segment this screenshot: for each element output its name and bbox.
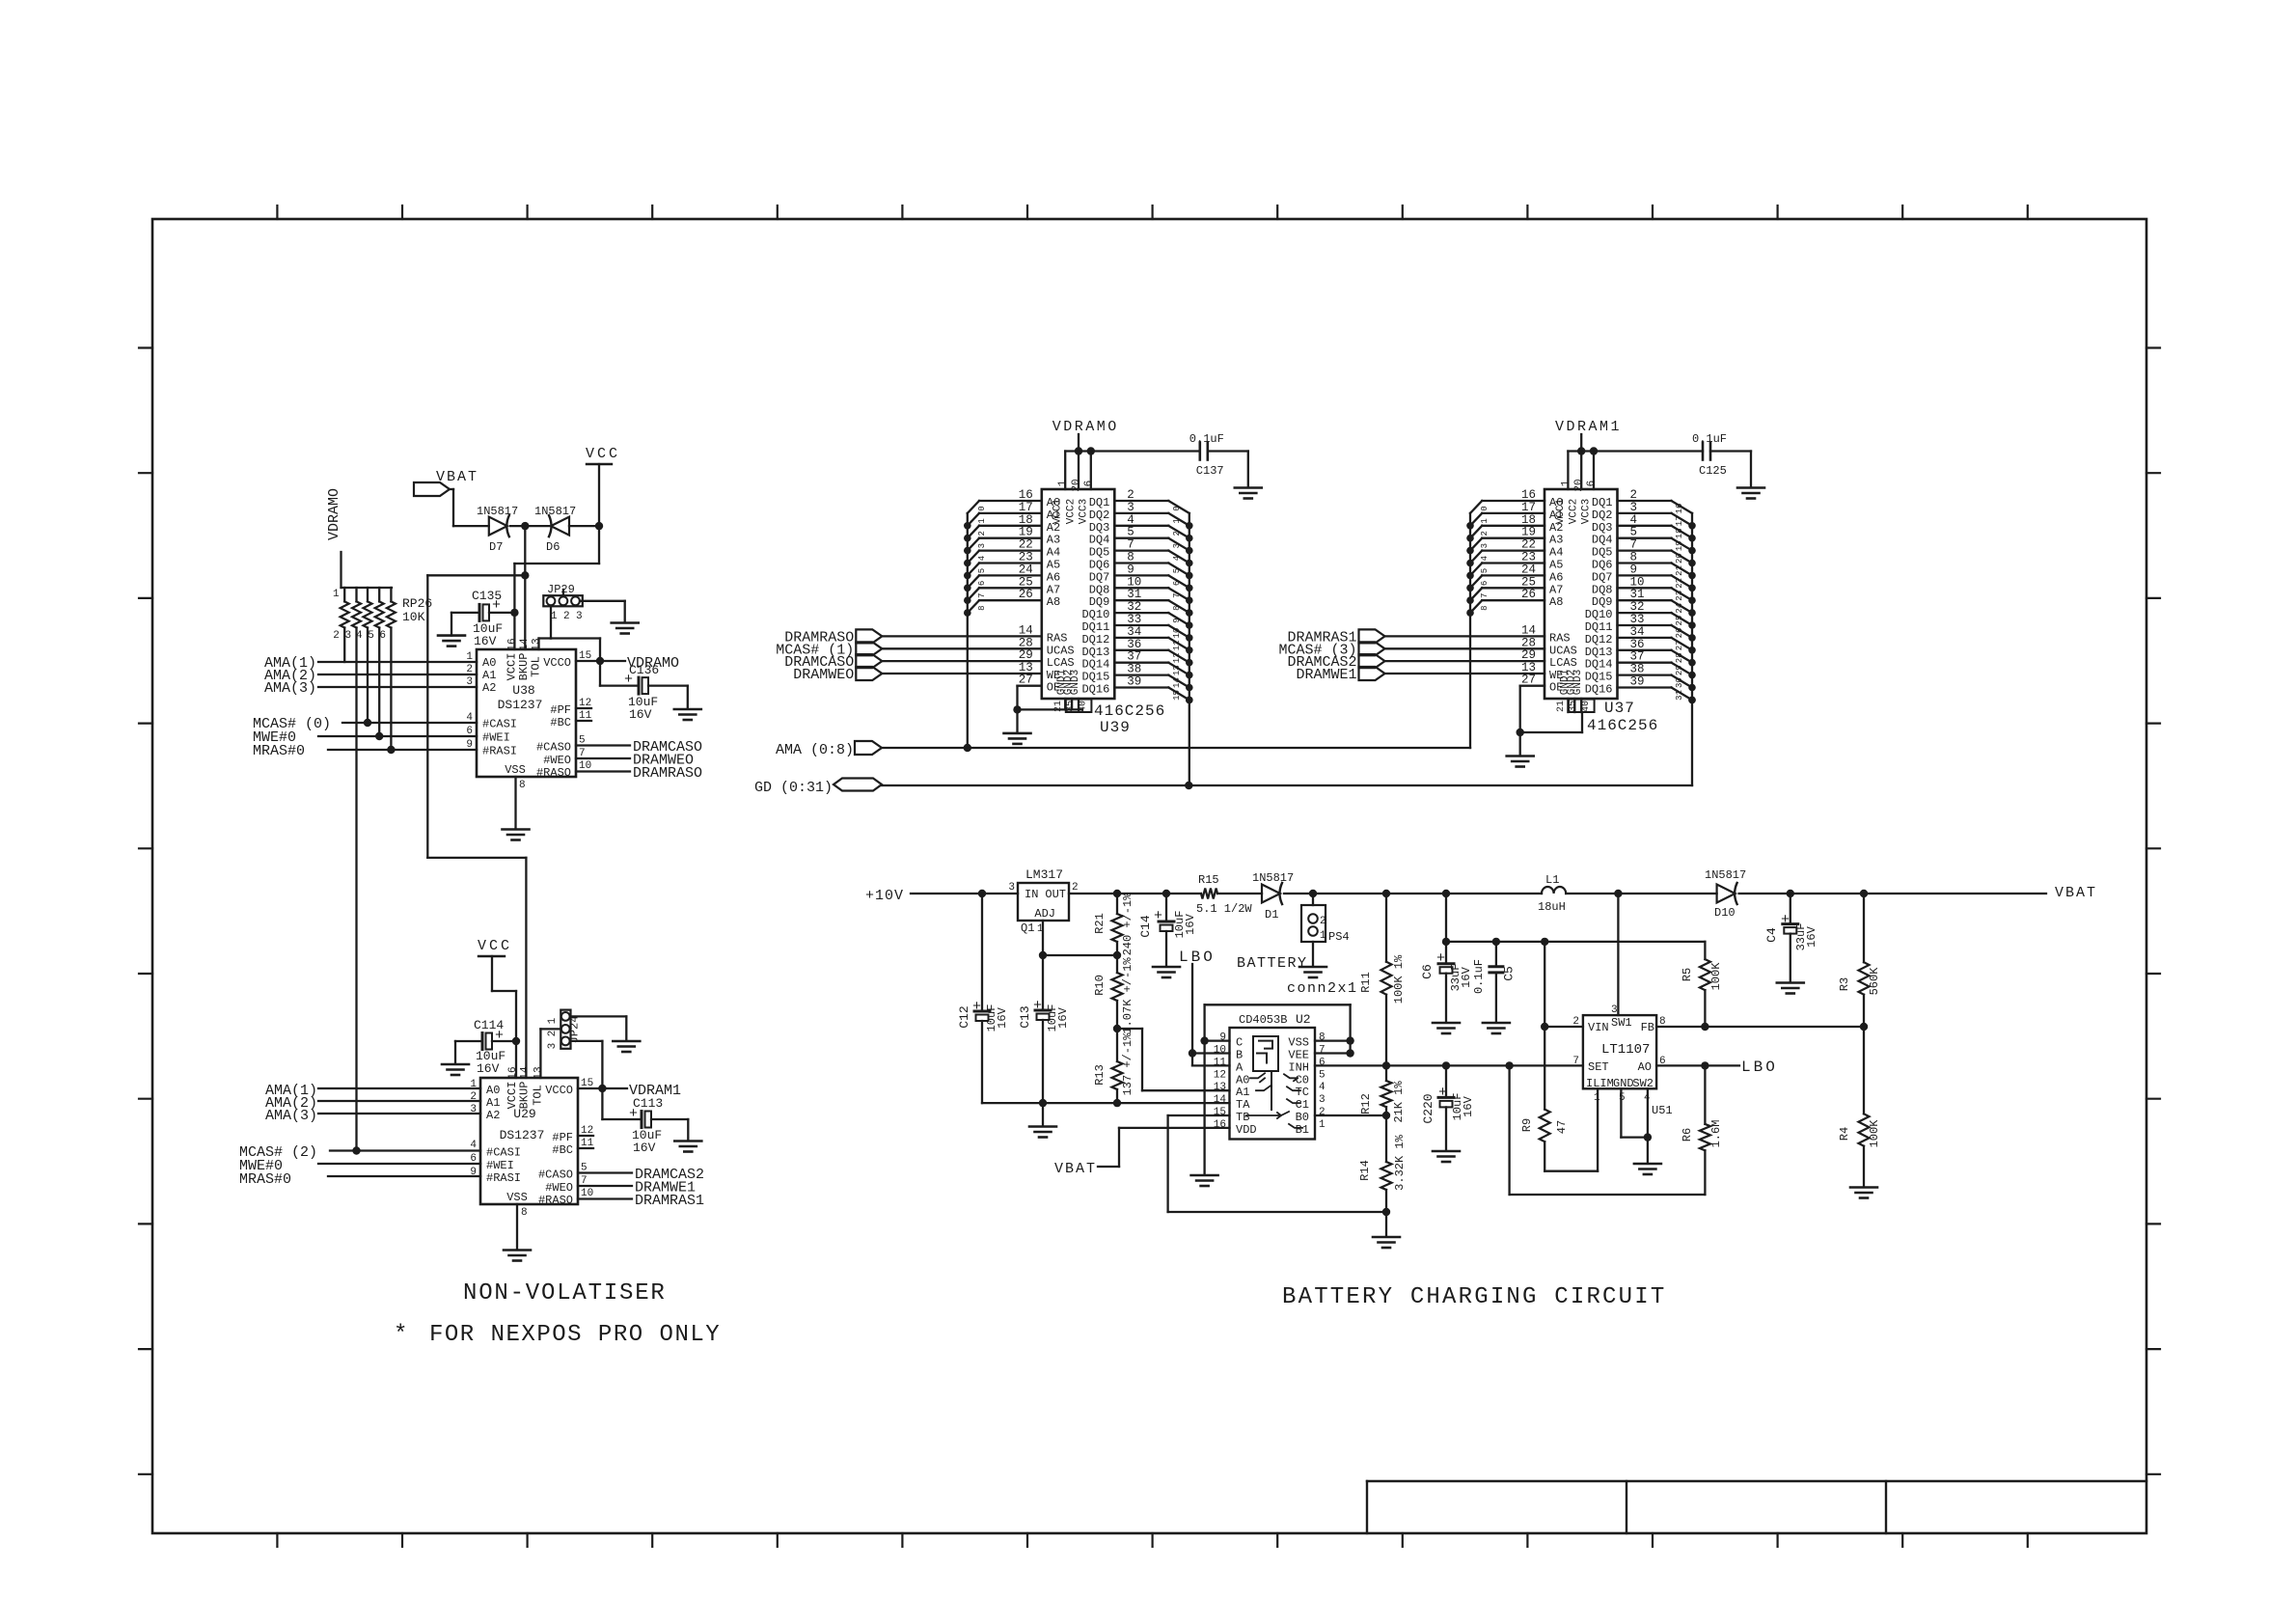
svg-text:18uH: 18uH	[1538, 900, 1566, 914]
svg-text:SW2: SW2	[1632, 1077, 1654, 1090]
wire RP26-3 down to MCAS#(0)	[367, 628, 369, 724]
label AMA(1) U29	[265, 1083, 317, 1099]
svg-text:17: 17	[1521, 501, 1536, 514]
svg-text:8: 8	[1480, 605, 1490, 610]
svg-text:R4: R4	[1838, 1127, 1851, 1141]
svg-text:19: 19	[1521, 526, 1536, 539]
svg-text:24: 24	[1675, 603, 1684, 614]
wire TOL to JP29 region	[539, 639, 552, 650]
svg-text:38: 38	[1127, 663, 1141, 676]
svg-text:#RASO: #RASO	[538, 1194, 573, 1207]
svg-text:29: 29	[1675, 665, 1684, 675]
svg-text:14: 14	[1019, 623, 1033, 637]
svg-text:21K 1%: 21K 1%	[1392, 1081, 1406, 1123]
svg-text:1: 1	[1319, 1119, 1326, 1131]
label MRAS#0 U38	[253, 743, 305, 759]
svg-text:L1: L1	[1545, 873, 1559, 887]
wire AO to LBO	[1656, 1064, 1739, 1066]
wire AMA(1) to U29 pin1	[318, 1087, 480, 1089]
svg-text:A0: A0	[486, 1084, 500, 1097]
wire JP24-1 to ground	[571, 1016, 627, 1040]
svg-text:100K: 100K	[1868, 1119, 1881, 1148]
svg-text:4: 4	[1172, 556, 1182, 561]
svg-text:U39: U39	[1100, 719, 1131, 736]
power flag VCC (U29)	[478, 938, 512, 956]
wire MRAS#0 to U29 pin9	[328, 1175, 480, 1177]
pin number box U37	[1556, 700, 1595, 712]
svg-text:1N5817: 1N5817	[1705, 868, 1746, 882]
wire U29 VSS to ground	[516, 1204, 518, 1250]
svg-text:DQ16: DQ16	[1585, 683, 1613, 697]
node R6 loop tap	[1505, 1061, 1513, 1069]
svg-text:DQ14: DQ14	[1585, 658, 1613, 672]
svg-text:LM317: LM317	[1025, 867, 1063, 882]
svg-text:39: 39	[1127, 675, 1141, 689]
svg-text:0: 0	[1172, 506, 1182, 510]
svg-text:1: 1	[1172, 518, 1182, 523]
svg-text:6: 6	[1319, 1057, 1326, 1068]
diode D6 1N5817	[534, 505, 576, 554]
wire D10 to VBAT	[1739, 893, 2046, 894]
svg-text:A3: A3	[1047, 534, 1060, 547]
node VCC-D6	[595, 522, 603, 530]
capacitor C14 10uF 16V	[1138, 894, 1197, 938]
svg-text:7: 7	[1319, 1045, 1326, 1057]
stub U38 pin12 #PF	[576, 707, 591, 709]
svg-text:3: 3	[1611, 1004, 1618, 1016]
svg-text:+: +	[492, 597, 501, 614]
svg-text:560K: 560K	[1868, 967, 1881, 996]
svg-text:3.32K 1%: 3.32K 1%	[1393, 1134, 1407, 1190]
svg-text:26: 26	[1521, 588, 1536, 601]
wire U38 #RASO to DRAMRAS0	[576, 770, 630, 772]
svg-text:TOL: TOL	[531, 1085, 544, 1106]
svg-text:6: 6	[1172, 581, 1182, 586]
svg-text:3: 3	[547, 1043, 559, 1050]
signal flag GD(0:31)	[754, 779, 882, 797]
wire VDRAMO stem	[1078, 434, 1080, 452]
svg-text:9: 9	[1630, 563, 1638, 576]
svg-text:2: 2	[1630, 488, 1638, 502]
signal flags DRAMRASO/MCAS# (1)/DRAMCASO/DRAMWEO	[776, 623, 1042, 683]
wire D1 to PS4/L1	[1284, 893, 1542, 894]
svg-text:16: 16	[507, 1066, 519, 1079]
svg-text:16: 16	[1675, 504, 1684, 514]
svg-text:DQ12: DQ12	[1081, 633, 1109, 646]
node R6 top	[1701, 1061, 1708, 1069]
svg-text:R15: R15	[1198, 873, 1219, 887]
capacitor C5 0.1uF	[1472, 942, 1517, 994]
svg-text:VSS: VSS	[1288, 1036, 1309, 1050]
net label LBO (left)	[1179, 949, 1216, 966]
svg-text:28: 28	[1675, 652, 1684, 663]
svg-text:2: 2	[1319, 1107, 1326, 1118]
svg-text:10: 10	[1172, 628, 1182, 639]
svg-text:5: 5	[1630, 526, 1638, 539]
wire GD(0:31) bus	[882, 782, 1692, 789]
label AMA(3) U38	[264, 680, 316, 697]
ground U51	[1634, 1164, 1661, 1174]
svg-text:1: 1	[977, 518, 987, 523]
net label VDRAM0 (right of U38)	[627, 655, 679, 672]
svg-text:GND3: GND3	[1572, 670, 1584, 695]
resistor R10 1.07K	[1093, 955, 1134, 1034]
net label DRAMRAS0	[633, 765, 702, 782]
svg-text:VDRAM1: VDRAM1	[1555, 419, 1622, 435]
svg-text:C: C	[1236, 1036, 1243, 1050]
svg-text:DQ8: DQ8	[1592, 583, 1613, 596]
svg-text:FOR NEXPOS PRO ONLY: FOR NEXPOS PRO ONLY	[429, 1322, 721, 1348]
svg-text:5: 5	[1127, 526, 1134, 539]
label MCAS#(0)	[253, 716, 331, 732]
wire U38 #WEO to DRAMWE0	[576, 757, 630, 759]
resistor R11 100K 1%	[1359, 894, 1406, 1065]
svg-text:LT1107: LT1107	[1601, 1042, 1650, 1058]
resistor R14 3.32K 1%	[1358, 1115, 1407, 1212]
svg-text:*: *	[394, 1322, 407, 1348]
node VSS loop	[1346, 1036, 1353, 1044]
wire AMA(2) to U38 pin2	[318, 674, 477, 675]
svg-text:16V: 16V	[1056, 1006, 1070, 1028]
stub U29 pin12 #PF	[578, 1135, 593, 1137]
svg-text:20: 20	[1071, 479, 1082, 491]
svg-text:8: 8	[1172, 605, 1182, 610]
svg-text:VCC1: VCC1	[1555, 498, 1567, 524]
svg-text:D7: D7	[489, 540, 503, 554]
svg-text:24: 24	[1019, 563, 1033, 576]
svg-text:1: 1	[333, 589, 340, 600]
svg-text:8: 8	[519, 780, 526, 791]
svg-text:18: 18	[1019, 513, 1033, 527]
ground C137	[1235, 452, 1262, 499]
wire R6 bottom loop	[1510, 1065, 1706, 1195]
svg-text:R13: R13	[1093, 1064, 1107, 1086]
node R5-FB	[1701, 1023, 1708, 1031]
svg-text:C12: C12	[957, 1005, 971, 1028]
svg-text:22: 22	[1521, 538, 1536, 552]
net label VDRAM1	[629, 1083, 681, 1099]
svg-text:#RASI: #RASI	[486, 1171, 521, 1185]
svg-text:C0: C0	[1296, 1073, 1309, 1087]
wire MWE#0 to U29 pin6	[318, 1163, 480, 1165]
wire R13 junction to U2 A1	[1117, 1029, 1230, 1090]
svg-text:19: 19	[1675, 540, 1684, 551]
node C12 tap	[978, 890, 986, 897]
node PS4 tap	[1309, 890, 1317, 897]
ground C135	[438, 613, 465, 646]
svg-text:VBAT: VBAT	[436, 469, 478, 485]
svg-text:+: +	[1033, 998, 1042, 1014]
wire U39 GD bus vertical	[1189, 513, 1190, 785]
ground C6	[1433, 974, 1460, 1033]
svg-text:27: 27	[1521, 674, 1536, 687]
svg-text:11: 11	[1214, 1057, 1227, 1068]
node VCCO-C136	[596, 657, 604, 665]
svg-text:VIN: VIN	[1588, 1021, 1609, 1034]
svg-text:7: 7	[977, 593, 987, 598]
svg-text:10K: 10K	[402, 610, 425, 624]
svg-text:16V: 16V	[1805, 925, 1818, 947]
wire L1 to D10	[1566, 893, 1716, 894]
svg-text:#RASO: #RASO	[536, 766, 571, 780]
svg-text:20: 20	[1573, 479, 1585, 491]
svg-text:VCC3: VCC3	[1078, 499, 1089, 524]
ground U37	[1507, 732, 1534, 767]
svg-text:U51: U51	[1652, 1104, 1673, 1117]
svg-text:DS1237: DS1237	[498, 698, 543, 712]
wire D7-D6 junction	[510, 525, 549, 527]
resistor R5 100K	[1681, 942, 1723, 1027]
svg-text:conn2x1: conn2x1	[1287, 980, 1358, 997]
svg-text:#RASI: #RASI	[482, 745, 517, 758]
node R11-R12-INH	[1382, 1061, 1390, 1069]
svg-text:2: 2	[977, 531, 987, 536]
svg-text:#WEO: #WEO	[545, 1181, 573, 1195]
wire LM317 ADJ	[1042, 921, 1044, 955]
svg-text:3: 3	[1480, 543, 1490, 548]
node C14 tap	[1162, 890, 1170, 897]
wire JP24-2 to U29 TOL	[540, 1029, 560, 1078]
svg-text:6: 6	[1586, 481, 1598, 487]
svg-text:33: 33	[1630, 613, 1645, 626]
svg-text:+: +	[1438, 1085, 1447, 1101]
node C4 tap	[1787, 890, 1794, 897]
svg-text:8: 8	[977, 605, 987, 610]
ground JP29	[612, 623, 639, 634]
svg-text:3: 3	[1630, 501, 1638, 514]
svg-text:A3: A3	[1549, 534, 1563, 547]
svg-text:TA: TA	[1236, 1098, 1250, 1112]
node C114-VCCI	[512, 1037, 520, 1045]
net label DRAMCAS0	[633, 739, 702, 756]
wire VDRAM0 to RP26	[340, 552, 342, 588]
svg-text:LCAS: LCAS	[1047, 656, 1075, 670]
border frame	[152, 219, 2146, 1533]
svg-text:+10V: +10V	[865, 888, 904, 904]
wire U37 OE to ground	[1520, 674, 1544, 732]
svg-text:ILIM: ILIM	[1586, 1077, 1614, 1090]
svg-text:100K: 100K	[1709, 962, 1723, 991]
svg-text:DQ5: DQ5	[1089, 546, 1110, 560]
svg-text:TB: TB	[1236, 1111, 1249, 1124]
svg-text:VCC3: VCC3	[1581, 499, 1593, 524]
svg-text:+: +	[624, 672, 633, 688]
resistor R15 5.1 1/2W	[1196, 873, 1262, 916]
wire R9 to ILIM	[1544, 1088, 1598, 1170]
svg-text:VBAT: VBAT	[1054, 1161, 1097, 1177]
node R14 bottom	[1382, 1208, 1390, 1216]
wire U39 VCC bus	[1065, 447, 1200, 489]
wire LM317 OUT rail	[1069, 893, 1201, 894]
signal flag AMA(0:8)	[776, 741, 882, 758]
svg-text:#WEI: #WEI	[486, 1159, 514, 1172]
svg-text:3: 3	[1127, 501, 1134, 514]
svg-text:3: 3	[1008, 882, 1015, 894]
title NON-VOLATISER	[463, 1280, 667, 1307]
svg-text:16: 16	[1214, 1119, 1226, 1131]
wire U2 INH to R11 rail	[1315, 1064, 1386, 1066]
svg-text:10: 10	[1127, 575, 1141, 589]
wire U2 VSS/VEE ground loop	[1205, 1004, 1351, 1174]
ground PS4	[1299, 942, 1326, 977]
capacitor C113 10uF 16V	[602, 1088, 688, 1155]
resistor R4 100K	[1838, 1027, 1881, 1187]
svg-text:A8: A8	[1549, 595, 1563, 609]
wire VBAT to U2 VDD	[1098, 1128, 1230, 1167]
svg-text:16V: 16V	[1460, 966, 1473, 987]
ground C220	[1433, 1107, 1460, 1162]
svg-text:#WEO: #WEO	[543, 754, 571, 767]
svg-text:B: B	[1236, 1049, 1243, 1062]
ground U2	[1191, 1175, 1218, 1186]
svg-text:DQ7: DQ7	[1592, 570, 1613, 584]
label MRAS#0 U29	[239, 1171, 291, 1188]
svg-text:7: 7	[1630, 538, 1638, 552]
node R3 tap	[1860, 890, 1868, 897]
svg-text:36: 36	[1630, 638, 1645, 651]
IC U2 CD4053B	[1214, 1012, 1326, 1140]
svg-text:U2: U2	[1296, 1012, 1311, 1027]
svg-text:TOL: TOL	[530, 656, 543, 677]
svg-text:9: 9	[1172, 618, 1182, 622]
svg-text:AMA(3): AMA(3)	[264, 680, 316, 697]
svg-text:1N5817: 1N5817	[1252, 871, 1294, 885]
svg-text:4: 4	[1630, 513, 1638, 527]
svg-text:16V: 16V	[996, 1006, 1009, 1028]
IC U39 416C256	[1042, 479, 1115, 699]
capacitor C125 0.1uF	[1692, 432, 1751, 478]
svg-text:2: 2	[1172, 531, 1182, 536]
svg-text:DQ8: DQ8	[1089, 583, 1110, 596]
svg-text:DQ10: DQ10	[1585, 608, 1613, 621]
node C220 tap	[1442, 1061, 1450, 1069]
wire BKUP net vertical	[524, 526, 526, 649]
svg-text:5: 5	[1319, 1069, 1326, 1081]
svg-text:22: 22	[1675, 578, 1684, 589]
wire U29 VCCO to VDRAM1	[578, 1087, 627, 1089]
svg-text:10: 10	[1630, 575, 1645, 589]
svg-text:A2: A2	[486, 1109, 500, 1122]
IC U29 DS1237	[470, 1066, 593, 1219]
svg-text:2: 2	[1320, 916, 1326, 927]
svg-text:#CASI: #CASI	[482, 718, 517, 731]
svg-text:#CASO: #CASO	[538, 1169, 573, 1182]
wire U39 OE to ground	[1018, 674, 1042, 710]
svg-text:#WEI: #WEI	[482, 731, 510, 745]
svg-text:Q1: Q1	[1021, 922, 1034, 935]
ground JP24	[613, 1041, 640, 1052]
svg-text:#CASO: #CASO	[536, 741, 571, 755]
svg-text:21: 21	[1556, 701, 1567, 712]
label AMA(3) U29	[265, 1108, 317, 1124]
capacitor C6 33uF 16V	[1420, 894, 1473, 991]
svg-text:0.1uF: 0.1uF	[1692, 432, 1727, 446]
svg-text:R21: R21	[1093, 913, 1107, 934]
resistor R3 560K	[1838, 894, 1881, 1027]
svg-text:C13: C13	[1018, 1005, 1032, 1028]
svg-text:ADJ: ADJ	[1034, 907, 1055, 921]
svg-text:23: 23	[1019, 551, 1033, 564]
svg-text:VCCO: VCCO	[545, 1084, 573, 1097]
svg-text:VCC: VCC	[586, 446, 620, 462]
svg-text:VCCO: VCCO	[543, 656, 571, 670]
svg-text:D6: D6	[546, 540, 560, 554]
svg-text:14: 14	[1172, 677, 1182, 688]
net label VBAT (right)	[2055, 885, 2097, 901]
label MWE#0 U29	[239, 1158, 283, 1174]
svg-text:D1: D1	[1265, 908, 1278, 922]
capacitor C12 10uF 16V	[957, 894, 1009, 1032]
svg-text:R6: R6	[1681, 1128, 1694, 1142]
svg-text:A2: A2	[482, 681, 496, 695]
svg-text:A6: A6	[1549, 570, 1563, 584]
svg-text:13: 13	[1172, 665, 1182, 675]
ground C113	[674, 1119, 701, 1152]
svg-text:DQ11: DQ11	[1081, 620, 1109, 634]
jumper JP29	[543, 583, 583, 622]
wire U37 GND pins	[1520, 699, 1582, 732]
svg-text:VCC: VCC	[478, 938, 512, 954]
node VEE loop	[1346, 1049, 1353, 1057]
svg-text:5: 5	[368, 630, 374, 642]
svg-text:DQ14: DQ14	[1081, 658, 1109, 672]
wire AMA(3) to U29 pin3	[318, 1113, 480, 1114]
svg-text:47: 47	[1555, 1120, 1569, 1134]
wire MRAS#0 to U38 pin9	[328, 746, 477, 754]
svg-text:+: +	[629, 1106, 638, 1122]
svg-text:VEE: VEE	[1288, 1049, 1309, 1062]
node R11 rail top	[1382, 890, 1390, 897]
svg-text:AMA(3): AMA(3)	[265, 1108, 317, 1124]
svg-text:2: 2	[563, 611, 570, 622]
label AMA(1) U38	[264, 655, 316, 672]
capacitor C13 10uF 16V	[1018, 955, 1070, 1032]
wire C13 bottom	[1042, 1020, 1044, 1103]
svg-text:VCC2: VCC2	[1569, 499, 1580, 524]
wire ADJ to R21 bottom	[1039, 951, 1121, 959]
diode D7 1N5817	[477, 505, 518, 554]
svg-text:6: 6	[1083, 481, 1095, 487]
svg-text:16V: 16V	[477, 1061, 500, 1076]
wire MCAS#(2) to U29 pin4	[330, 1146, 480, 1154]
svg-text:34: 34	[1127, 625, 1141, 639]
diode D1 1N5817	[1252, 871, 1294, 922]
wire U38 VSS to ground	[514, 777, 516, 829]
IC U38 DS1237	[466, 638, 591, 791]
svg-text:23: 23	[1675, 591, 1684, 601]
svg-text:416C256: 416C256	[1587, 717, 1658, 734]
svg-text:14: 14	[1214, 1094, 1227, 1106]
wire +10V rail to LM317	[911, 893, 1018, 894]
wire JP29-1 to VCCO node	[551, 606, 600, 661]
svg-text:C6: C6	[1420, 964, 1435, 979]
svg-text:8: 8	[521, 1207, 528, 1219]
svg-text:37: 37	[1630, 650, 1645, 664]
svg-text:0: 0	[977, 506, 987, 510]
svg-text:13: 13	[532, 638, 543, 650]
svg-text:RP26: RP26	[402, 596, 432, 611]
svg-text:1: 1	[1320, 930, 1326, 942]
svg-text:#PF: #PF	[550, 703, 571, 717]
ground R4	[1850, 1188, 1877, 1198]
svg-text:IN: IN	[1025, 888, 1038, 901]
svg-text:RAS: RAS	[1047, 631, 1068, 645]
svg-text:LBO: LBO	[1741, 1059, 1778, 1076]
svg-text:#BC: #BC	[552, 1143, 573, 1157]
svg-text:DQ3: DQ3	[1089, 521, 1110, 535]
svg-text:30: 30	[1675, 677, 1684, 688]
svg-text:A: A	[1236, 1060, 1244, 1074]
